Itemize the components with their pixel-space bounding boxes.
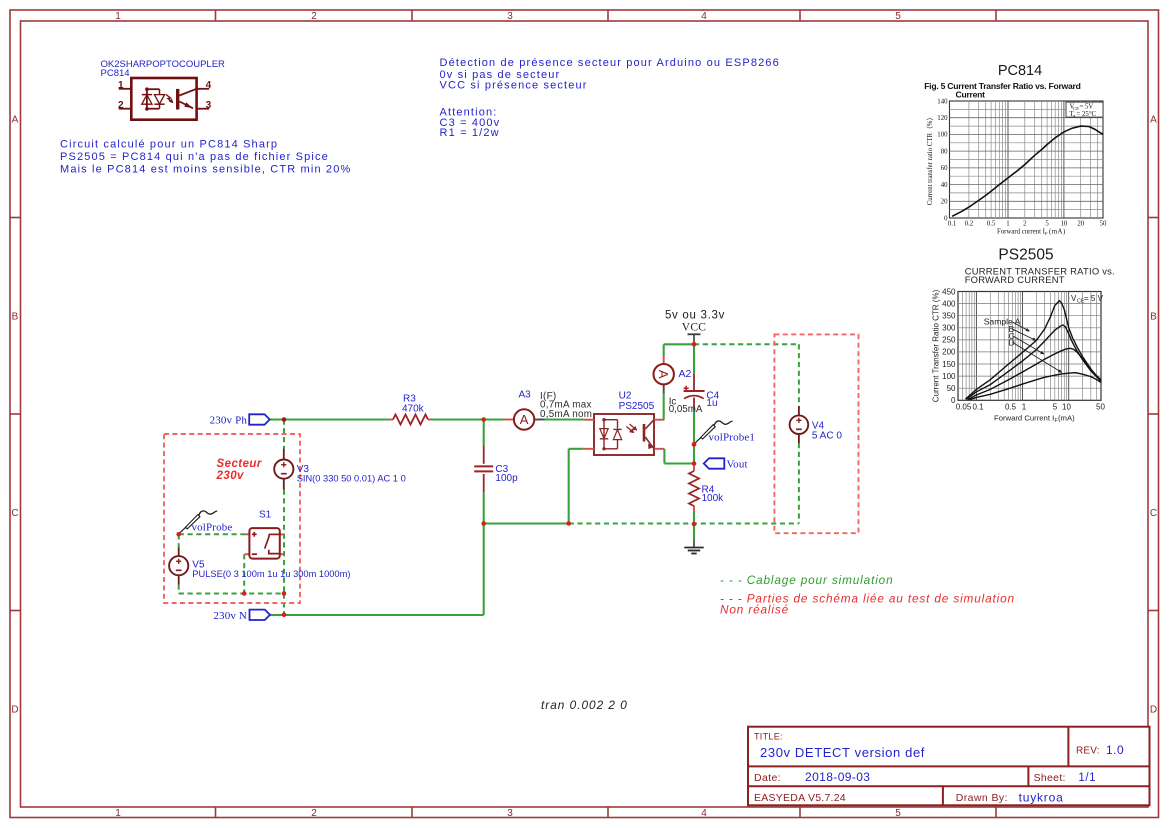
svg-text:Current transfer ratio CTR（%）: Current transfer ratio CTR（%） bbox=[926, 114, 934, 206]
svg-text:2: 2 bbox=[311, 11, 317, 22]
svg-text:230v Ph: 230v Ph bbox=[210, 415, 248, 427]
svg-text:A: A bbox=[520, 412, 529, 427]
svg-text:1: 1 bbox=[115, 808, 121, 819]
svg-text:PULSE(0 3 100m 1u 1u 300m 1000: PULSE(0 3 100m 1u 1u 300m 1000m) bbox=[192, 569, 350, 579]
svg-text:FORWARD CURRENT: FORWARD CURRENT bbox=[965, 274, 1065, 285]
svg-text:tuykroa: tuykroa bbox=[1019, 791, 1064, 805]
svg-text:PS2505 = PC814 qui n'a pas de: PS2505 = PC814 qui n'a pas de fichier Sp… bbox=[60, 151, 329, 163]
svg-text:Drawn By:: Drawn By: bbox=[956, 792, 1008, 804]
svg-text:Secteur: Secteur bbox=[217, 458, 262, 470]
svg-text:100k: 100k bbox=[702, 493, 725, 504]
svg-text:Mais le PC814 est moins sensib: Mais le PC814 est moins sensible, CTR mi… bbox=[60, 164, 351, 176]
svg-text:400: 400 bbox=[942, 299, 956, 308]
svg-text:20: 20 bbox=[941, 199, 948, 206]
svg-text:PS2505: PS2505 bbox=[619, 401, 655, 412]
svg-text:20: 20 bbox=[1077, 221, 1084, 228]
svg-text:SIN(0 330 50 0.01) AC 1 0: SIN(0 330 50 0.01) AC 1 0 bbox=[297, 473, 406, 483]
svg-text:Sheet:: Sheet: bbox=[1034, 772, 1066, 784]
svg-text:Current Transfer Ratio CTR (%: Current Transfer Ratio CTR (%) bbox=[932, 289, 941, 402]
svg-text:volProbe1: volProbe1 bbox=[709, 432, 756, 444]
svg-text:A: A bbox=[12, 115, 19, 126]
svg-text:C: C bbox=[11, 508, 18, 519]
svg-text:5: 5 bbox=[1045, 221, 1049, 228]
svg-text:50: 50 bbox=[1100, 221, 1107, 228]
svg-text:PS2505: PS2505 bbox=[998, 247, 1053, 264]
svg-text:C: C bbox=[1150, 508, 1157, 519]
svg-text:1/1: 1/1 bbox=[1078, 772, 1096, 784]
svg-text:B: B bbox=[1150, 312, 1157, 323]
svg-text:Circuit calculé pour un PC814: Circuit calculé pour un PC814 Sharp bbox=[60, 138, 278, 150]
svg-text:3: 3 bbox=[507, 11, 513, 22]
svg-text:volProbe: volProbe bbox=[192, 522, 233, 534]
svg-text:200: 200 bbox=[942, 348, 956, 357]
svg-text:0,5mA nom: 0,5mA nom bbox=[540, 409, 592, 420]
svg-text:(mA): (mA) bbox=[1058, 414, 1075, 423]
svg-text:1u: 1u bbox=[706, 398, 717, 409]
svg-text:3: 3 bbox=[206, 100, 212, 111]
svg-text:250: 250 bbox=[942, 336, 956, 345]
svg-text:a: a bbox=[1073, 113, 1075, 118]
svg-text:4: 4 bbox=[206, 80, 212, 91]
svg-text:A2: A2 bbox=[679, 368, 692, 380]
svg-text:4: 4 bbox=[701, 808, 707, 819]
svg-text:S1: S1 bbox=[259, 510, 272, 521]
svg-text:230v N: 230v N bbox=[213, 610, 247, 622]
svg-text:A: A bbox=[656, 370, 671, 379]
svg-text:Forward Current I: Forward Current I bbox=[994, 414, 1054, 423]
svg-text:A3: A3 bbox=[519, 390, 532, 401]
svg-text:5: 5 bbox=[1053, 402, 1058, 411]
svg-text:PC814: PC814 bbox=[998, 63, 1042, 79]
svg-text:0,05mA: 0,05mA bbox=[669, 404, 703, 415]
svg-text:100: 100 bbox=[937, 132, 948, 139]
svg-text:2: 2 bbox=[311, 808, 317, 819]
svg-text:Forward current I: Forward current I bbox=[997, 229, 1046, 236]
svg-text:F: F bbox=[1045, 231, 1048, 236]
svg-text:230v DETECT version def: 230v DETECT version def bbox=[760, 745, 925, 760]
svg-text:5: 5 bbox=[895, 11, 901, 22]
svg-text:= 25°C: = 25°C bbox=[1077, 111, 1097, 118]
svg-text:0.05: 0.05 bbox=[956, 402, 972, 411]
svg-text:10: 10 bbox=[1062, 402, 1071, 411]
svg-text:450: 450 bbox=[942, 287, 956, 296]
svg-text:D: D bbox=[11, 705, 18, 716]
svg-text:Current: Current bbox=[956, 89, 986, 99]
svg-text:TITLE:: TITLE: bbox=[754, 732, 783, 742]
svg-text:40: 40 bbox=[941, 182, 948, 189]
svg-text:0.2: 0.2 bbox=[965, 221, 974, 228]
svg-text:1: 1 bbox=[115, 11, 121, 22]
svg-text:4: 4 bbox=[701, 11, 707, 22]
svg-text:1: 1 bbox=[1006, 221, 1009, 228]
svg-text:0.1: 0.1 bbox=[948, 221, 957, 228]
svg-text:2: 2 bbox=[1023, 221, 1027, 228]
svg-text:1: 1 bbox=[1022, 402, 1027, 411]
svg-text:D: D bbox=[1150, 705, 1157, 716]
svg-text:EASYEDA V5.7.24: EASYEDA V5.7.24 bbox=[754, 792, 846, 804]
svg-text:VCC: VCC bbox=[682, 322, 707, 334]
svg-text:Fig. 5 Current Transfer Ratio: Fig. 5 Current Transfer Ratio vs. Forwar… bbox=[924, 81, 1080, 91]
svg-text:80: 80 bbox=[941, 148, 948, 155]
svg-text:470k: 470k bbox=[402, 404, 425, 415]
svg-text:Vout: Vout bbox=[727, 459, 748, 471]
svg-text:VCC si présence secteur: VCC si présence secteur bbox=[440, 79, 588, 91]
svg-text:A: A bbox=[1150, 115, 1157, 126]
svg-text:Détection de présence secteur: Détection de présence secteur pour Ardui… bbox=[440, 57, 780, 69]
svg-text:10: 10 bbox=[1061, 221, 1068, 228]
svg-text:5 AC 0: 5 AC 0 bbox=[812, 431, 842, 442]
svg-text:0.5: 0.5 bbox=[1005, 402, 1017, 411]
svg-text:5: 5 bbox=[895, 808, 901, 819]
svg-text:1.0: 1.0 bbox=[1106, 743, 1124, 757]
svg-text:Date:: Date: bbox=[754, 772, 781, 784]
svg-text:U2: U2 bbox=[619, 391, 632, 402]
svg-text:1: 1 bbox=[118, 80, 124, 91]
svg-text:tran 0.002 2 0: tran 0.002 2 0 bbox=[541, 698, 628, 712]
svg-text:140: 140 bbox=[937, 98, 948, 105]
svg-text:- - - Cablage pour simulation: - - - Cablage pour simulation bbox=[720, 573, 894, 587]
svg-text:= 5V: = 5V bbox=[1080, 104, 1094, 111]
svg-text:B: B bbox=[12, 312, 19, 323]
svg-text:Non réalisé: Non réalisé bbox=[720, 603, 789, 617]
svg-text:300: 300 bbox=[942, 324, 956, 333]
svg-text:50: 50 bbox=[947, 384, 956, 393]
svg-text:60: 60 bbox=[941, 165, 948, 172]
svg-text:= 5 V: = 5 V bbox=[1084, 294, 1104, 303]
svg-text:2018-09-03: 2018-09-03 bbox=[805, 770, 870, 784]
svg-text:(mA): (mA) bbox=[1049, 229, 1066, 236]
svg-text:230v: 230v bbox=[216, 470, 245, 482]
svg-text:REV:: REV: bbox=[1076, 746, 1100, 757]
svg-text:50: 50 bbox=[1096, 402, 1105, 411]
svg-text:150: 150 bbox=[942, 360, 956, 369]
svg-text:Sample A: Sample A bbox=[984, 316, 1021, 326]
svg-text:3: 3 bbox=[507, 808, 513, 819]
svg-text:5v ou 3.3v: 5v ou 3.3v bbox=[665, 310, 725, 322]
svg-text:100p: 100p bbox=[495, 473, 518, 484]
svg-text:D: D bbox=[1009, 337, 1015, 347]
svg-text:120: 120 bbox=[937, 115, 948, 122]
svg-text:0.1: 0.1 bbox=[972, 402, 984, 411]
svg-text:PC814: PC814 bbox=[101, 68, 130, 79]
svg-text:100: 100 bbox=[942, 372, 956, 381]
svg-text:0.5: 0.5 bbox=[987, 221, 996, 228]
svg-text:350: 350 bbox=[942, 311, 956, 320]
svg-text:2: 2 bbox=[118, 100, 124, 111]
svg-text:R1 = 1/2w: R1 = 1/2w bbox=[440, 127, 500, 139]
